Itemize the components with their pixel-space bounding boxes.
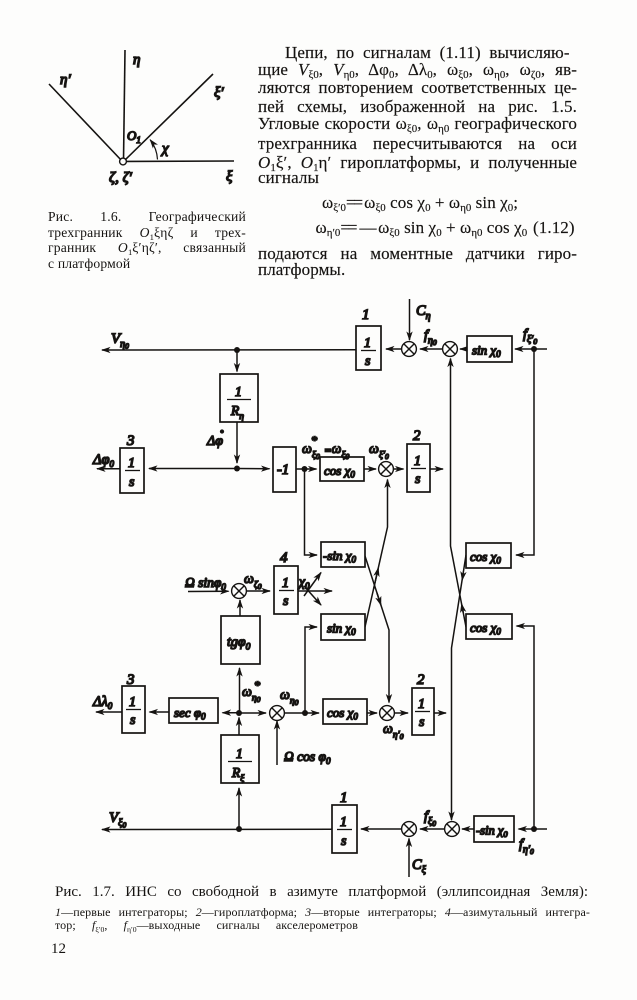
- wire: sec-phi to integrator3-lambda: [150, 711, 170, 713]
- svg-text:1: 1: [236, 746, 243, 761]
- wire: delta-lambda output arrow: [96, 711, 122, 713]
- svg-text:ζ, ζ′: ζ, ζ′: [109, 170, 133, 186]
- block sec phi: [169, 698, 218, 723]
- svg-text:ξ′: ξ′: [214, 85, 224, 101]
- wire: S5 via D6 to cos-box (omega-eta): [284, 712, 319, 714]
- integrator 2 box (1/s) gyro xi: [407, 444, 430, 492]
- block -sin chi (bottom): [474, 816, 514, 842]
- svg-text:fη′0: fη′0: [519, 837, 534, 856]
- svg-text:1: 1: [418, 697, 425, 712]
- wire: D1 down to 1/R-eta: [236, 350, 238, 372]
- svg-text:Cξ: Cξ: [412, 857, 427, 876]
- svg-text:χ: χ: [160, 141, 169, 157]
- svg-text:Δλ0: Δλ0: [92, 694, 113, 711]
- svg-text:3: 3: [126, 672, 135, 688]
- wire: delta-phi output arrow: [97, 468, 120, 470]
- svg-text:s: s: [129, 475, 135, 490]
- svg-text:fξ0: fξ0: [424, 809, 436, 828]
- svg-text:2: 2: [417, 672, 425, 688]
- integrator 4 box (1/s) azimuth: [274, 566, 298, 614]
- integrator 3 box (1/s) for d-phi: [120, 448, 144, 493]
- integrator 2 box (1/s) gyro eta: [412, 688, 434, 735]
- junction dot D2 (row d-phi): [234, 466, 240, 472]
- wire: -1 to cos-box via D3: [296, 468, 317, 470]
- svg-text:η: η: [133, 52, 140, 68]
- svg-text:Vη0: Vη0: [111, 331, 129, 351]
- wire: D6 up into sin box: [305, 627, 317, 713]
- wire: C-xi input up to S7: [408, 839, 410, 878]
- wire: cos-upper-right output diagonal down to S8: [452, 555, 467, 820]
- angle chi arc with arrow: [150, 140, 157, 160]
- summing junction S1 (C-eta adder): [402, 342, 417, 357]
- svg-text:O1: O1: [127, 128, 141, 145]
- block cos chi (upper right): [466, 543, 511, 568]
- wire: D4 down and into cos-upper-right: [516, 349, 534, 555]
- wire: f-eta' input stub: [534, 828, 547, 830]
- svg-text:2: 2: [413, 428, 421, 444]
- label omega-xi0-star = omega-xi0: [302, 433, 349, 461]
- summing junction S3 (omega-xi' adder): [379, 462, 394, 477]
- fraction 1/R-xi: [228, 746, 252, 784]
- svg-text:1: 1: [129, 695, 136, 710]
- block sin chi (top row): [467, 336, 512, 362]
- svg-text:ξ: ξ: [226, 169, 233, 185]
- wire: integrator2-eta output arrow: [434, 712, 446, 714]
- block -1: [273, 447, 296, 492]
- svg-text:s: s: [341, 834, 347, 849]
- wire: -sin-bottom to S8: [462, 828, 474, 830]
- svg-text:3: 3: [126, 433, 135, 449]
- wire: S8 to S7 (f-xi): [420, 828, 445, 830]
- svg-text:*: *: [311, 433, 317, 447]
- svg-text:χ0: χ0: [297, 574, 310, 591]
- svg-text:=: =: [324, 445, 331, 457]
- svg-text:s: s: [415, 472, 421, 487]
- svg-text:1: 1: [340, 790, 348, 806]
- wire: -sin output diagonal down (to omega-eta' junction): [365, 556, 389, 703]
- svg-text:1: 1: [340, 815, 347, 830]
- svg-text:Cη: Cη: [416, 303, 431, 322]
- fraction 1/s integrator4: [279, 576, 294, 609]
- wire: D8 to -sin-bottom (f-eta'): [519, 828, 535, 830]
- integrator 1 box (1/s) bottom: [332, 805, 357, 853]
- block cos chi (lower right): [466, 614, 512, 639]
- junction dot D8 (f-eta' input): [531, 826, 537, 832]
- wire: D5 to S5 (omega-eta*): [239, 712, 266, 714]
- wire: D5 up to tg-phi: [239, 668, 241, 713]
- svg-text:-sin χ0: -sin χ0: [323, 548, 356, 565]
- junction dot D6 (omega-eta branch): [302, 710, 308, 716]
- wire: cos-box to S3: [364, 468, 376, 470]
- block 1/R-eta: [220, 374, 258, 422]
- block -sin chi (middle): [321, 542, 365, 567]
- wire: D8 up and into cos-lower-right: [517, 626, 535, 829]
- junction dot D7 (bottom row branch): [236, 826, 242, 832]
- svg-text:1: 1: [235, 384, 242, 399]
- svg-text:ωζ0: ωζ0: [244, 572, 262, 591]
- block 1/R-xi: [221, 735, 259, 783]
- wire: C-eta drop: [409, 299, 411, 340]
- wire: Omega-cos-phi input up to S5: [276, 721, 278, 765]
- svg-text:Δφ0: Δφ0: [92, 452, 115, 469]
- svg-text:*: *: [254, 678, 260, 692]
- svg-text:η′: η′: [60, 72, 71, 88]
- wire: f-xi' input stub: [534, 348, 547, 350]
- fraction 1/s integrator3-lambda: [126, 695, 141, 728]
- fraction 1/R-eta: [227, 384, 251, 422]
- block tg phi: [221, 616, 260, 664]
- wire: V-eta output (top row left): [102, 349, 356, 351]
- axis eta (vertical): [124, 50, 126, 161]
- wire: D2 to -1 block: [237, 468, 270, 470]
- summing junction S6 (omega-eta' adder): [380, 706, 395, 721]
- svg-text:s: s: [130, 713, 136, 728]
- fraction 1/s in top integrator: [361, 336, 376, 369]
- junction dot D1 (top row branch): [234, 347, 240, 353]
- svg-text:1: 1: [362, 307, 370, 323]
- svg-text:4: 4: [280, 550, 288, 566]
- summing junction S5 (Omega-cos-phi adder): [270, 706, 285, 721]
- equation 2: [316, 218, 528, 240]
- block sin chi (middle): [321, 614, 365, 640]
- wire: D4 to sin-box (f-xi'): [515, 348, 534, 350]
- wire: S7 to integrator1-bottom: [361, 828, 402, 830]
- wire: chi branch arrow up to -sin: [304, 573, 321, 597]
- svg-text:ωη′0: ωη′0: [383, 722, 404, 741]
- block cos chi (row omega-eta): [323, 699, 367, 724]
- wire: D7 up to 1/R-xi: [238, 788, 240, 829]
- junction dot D3 (after -1): [302, 466, 308, 472]
- svg-text:fξ′0: fξ′0: [523, 327, 537, 346]
- wire: D3 down and into -sin box: [305, 469, 318, 555]
- fraction 1/s bottom integrator: [337, 815, 352, 849]
- svg-text:Ω cos φ0: Ω cos φ0: [284, 749, 331, 766]
- svg-text:fη0: fη0: [424, 328, 437, 347]
- wire: S3 to integrator2-xi: [393, 468, 404, 470]
- page number: [51, 941, 66, 958]
- wire: cos-lower-right output diagonal up to S2: [451, 359, 467, 628]
- wire: 1/R-xi up to D5: [238, 718, 240, 736]
- integrator 1 box (1/s) top: [356, 326, 381, 370]
- svg-text:ωξ′0: ωξ′0: [369, 442, 389, 461]
- wire: S6 to integrator2-eta: [394, 712, 408, 714]
- wire: chi output arrow: [298, 590, 332, 592]
- summing junction S4 (omega-zeta adder): [232, 584, 247, 599]
- wire: S4 to integrator4: [246, 590, 270, 592]
- junction dot D4 (f-xi' input): [531, 346, 537, 352]
- wire: integrator2-xi output arrow: [430, 468, 443, 470]
- svg-text:ωη0: ωη0: [280, 688, 299, 707]
- label omega-eta0-star: [242, 678, 261, 704]
- svg-text:Ω sinφ0: Ω sinφ0: [185, 575, 226, 592]
- svg-text:-1: -1: [277, 462, 289, 478]
- axis xi (horizontal): [124, 160, 234, 163]
- wire: sin-box to S2: [460, 348, 469, 350]
- fraction 1/s integrator2-eta: [415, 697, 430, 730]
- svg-text:Δφ: Δφ: [206, 434, 223, 449]
- wire: Omega-sin-phi input to S4: [188, 590, 229, 592]
- wire: S1 to integrator1: [386, 348, 402, 350]
- wire: cos-box to S6: [367, 712, 377, 714]
- svg-text:s: s: [365, 354, 371, 369]
- block cos chi (row omega-xi): [320, 457, 364, 481]
- junction dot D5 (omega-eta* branch): [236, 710, 242, 716]
- svg-text:1: 1: [364, 336, 371, 351]
- wire: chi branch arrow down to sin: [304, 586, 321, 605]
- axis xi-prime (upper-right diagonal): [124, 74, 213, 161]
- wire: sin output diagonal up (to omega-xi' junction): [365, 480, 388, 628]
- summing junction S8 (f-xi adder): [445, 822, 460, 837]
- wire: tg-phi up to S4: [239, 600, 241, 616]
- equation 1: [322, 193, 518, 215]
- wire: D5 to sec-phi: [223, 712, 240, 714]
- axis eta-prime (upper-left diagonal): [49, 84, 122, 161]
- summing junction S2 (f-eta adder): [443, 342, 458, 357]
- wire: 1/R-eta to D2 (d-phi-dot): [236, 422, 238, 463]
- origin open circle: [120, 158, 127, 165]
- svg-text:s: s: [419, 715, 425, 730]
- wire: V-xi output (bottom row left): [102, 828, 332, 830]
- svg-text:1: 1: [414, 454, 421, 469]
- svg-text:1: 1: [282, 576, 289, 591]
- summing junction S7 (C-xi adder): [402, 822, 417, 837]
- svg-text:s: s: [283, 594, 289, 609]
- wire: D2 to integrator3-phi: [149, 468, 237, 470]
- svg-text:1: 1: [128, 456, 135, 471]
- fraction 1/s integrator3-phi: [125, 456, 140, 490]
- wire: S2 to S1 (f-eta): [420, 348, 443, 350]
- fraction 1/s integrator2-xi: [411, 454, 426, 487]
- integrator 3 box (1/s) for d-lambda: [122, 686, 145, 733]
- svg-text:Vξ0: Vξ0: [109, 810, 126, 830]
